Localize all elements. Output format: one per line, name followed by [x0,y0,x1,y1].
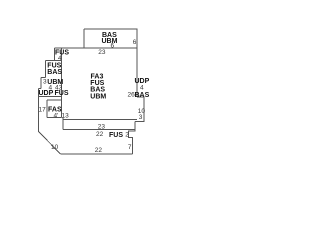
wire lower divider H2 [63,129,135,131]
wire diagonal wall lower left [39,132,61,155]
svg-text:23: 23 [98,123,106,130]
wire bottom wall [61,153,133,155]
wire FAS box top edge [47,99,62,101]
wire top rectangle left edge [83,29,85,48]
svg-text:4: 4 [58,55,62,62]
wire column left edge [45,60,47,77]
svg-text:13: 13 [62,113,70,120]
svg-text:7: 7 [128,144,132,151]
svg-text:4: 4 [140,85,144,92]
wire lower right stepped wall [128,122,135,154]
svg-text:2: 2 [125,131,129,138]
svg-text:3: 3 [139,114,143,121]
svg-text:BAS: BAS [135,92,150,99]
wire connector below FAS box [62,118,64,130]
wire left step down from divider [54,48,56,60]
svg-text:6: 6 [111,43,115,50]
svg-text:BAS: BAS [90,87,105,94]
wire small step to outer left wall [39,88,42,90]
wire main block left edge [61,48,63,118]
svg-text:22: 22 [96,131,104,138]
wire FAS box left edge [46,100,48,118]
svg-text:22: 22 [95,147,103,154]
wire UDP strip divider [39,96,62,98]
svg-text:BAS: BAS [47,69,62,76]
svg-text:FUS: FUS [109,132,123,139]
wire 3ft step vertical [40,78,42,89]
svg-text:10: 10 [51,144,59,151]
wire right side small box [135,97,144,122]
wire divider under top rectangle [55,47,137,49]
wire lower divider H1 [63,119,137,121]
svg-text:4': 4' [54,112,59,119]
wire 3ft step horizontal [41,77,46,79]
svg-text:17: 17 [39,107,47,114]
svg-text:UDP: UDP [39,90,54,97]
wire outer left wall [38,89,40,132]
wire top rectangle top+right edge [84,29,137,97]
wire column top edge [46,59,62,61]
wire FAS box bottom edge [47,117,62,119]
svg-text:23: 23 [98,49,106,56]
svg-text:6: 6 [133,39,137,46]
svg-text:FUS: FUS [55,90,69,97]
svg-text:UBM: UBM [90,94,106,101]
